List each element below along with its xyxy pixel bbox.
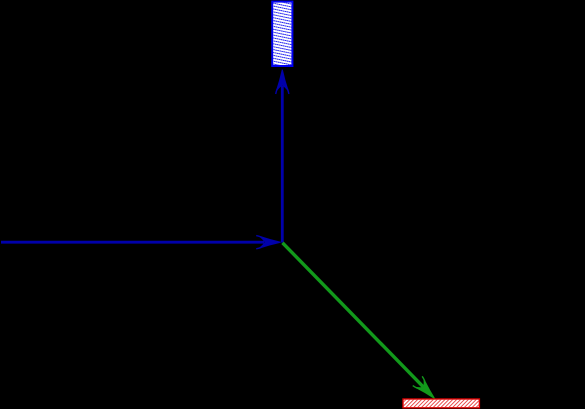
green arrow (transmitted ray down-right): [283, 243, 440, 403]
vertical blue arrow (reflected ray up): [276, 70, 289, 243]
bottom screen (red hatched rectangle): [396, 398, 494, 409]
top screen (blue hatched rectangle): [271, 0, 294, 74]
horizontal blue arrow (incoming ray): [1, 236, 281, 249]
